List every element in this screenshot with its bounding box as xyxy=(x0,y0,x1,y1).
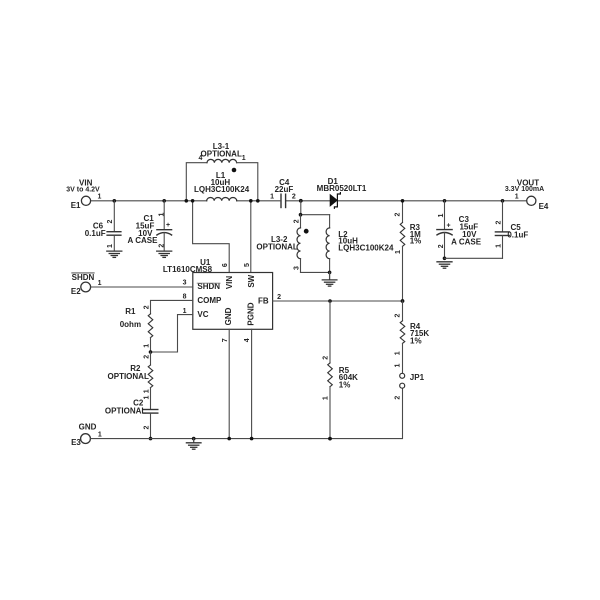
svg-text:2: 2 xyxy=(322,356,329,360)
node C4/D1/L3-2 junction xyxy=(299,199,303,215)
svg-text:1: 1 xyxy=(438,214,445,218)
svg-text:SHDN: SHDN xyxy=(72,273,95,282)
terminal E4 xyxy=(505,178,549,211)
svg-text:PGND: PGND xyxy=(247,302,256,325)
svg-text:OPTIONAL: OPTIONAL xyxy=(105,407,146,416)
svg-text:1%: 1% xyxy=(410,236,422,245)
inductor L3-1 (optional, coupled) xyxy=(185,142,260,202)
jumper JP1 xyxy=(394,363,424,399)
svg-text:2: 2 xyxy=(495,220,502,224)
op-amp U1 LT1610CMS8 box xyxy=(163,258,281,342)
svg-text:1%: 1% xyxy=(410,336,422,345)
svg-text:OPTIONAL: OPTIONAL xyxy=(256,242,297,251)
inductor L3-2 (optional, coupled) xyxy=(256,213,329,273)
svg-text:4: 4 xyxy=(244,338,251,342)
svg-text:1: 1 xyxy=(98,432,102,439)
svg-text:3V to 4.2V: 3V to 4.2V xyxy=(66,186,100,193)
wire VIN rail E1 to C4 xyxy=(91,200,207,202)
svg-text:A CASE: A CASE xyxy=(451,237,482,246)
svg-text:2: 2 xyxy=(438,244,445,248)
svg-text:OPTIONAL: OPTIONAL xyxy=(201,149,242,158)
svg-text:2: 2 xyxy=(395,212,402,216)
resistor R3 xyxy=(395,199,422,301)
svg-text:3: 3 xyxy=(183,280,187,287)
ground (L2/L3-2) xyxy=(322,272,337,286)
svg-text:2: 2 xyxy=(107,220,114,224)
resistor R2 (optional) xyxy=(108,352,153,409)
svg-text:1: 1 xyxy=(98,280,102,287)
svg-text:1: 1 xyxy=(515,194,519,201)
wire VIN pin drop xyxy=(191,199,229,273)
wire PGND pin 4 drop xyxy=(250,329,254,440)
svg-text:2: 2 xyxy=(277,294,281,301)
svg-text:MBR0520LT1: MBR0520LT1 xyxy=(317,184,367,193)
ground (C1) xyxy=(157,251,172,257)
svg-text:1: 1 xyxy=(495,244,502,248)
svg-text:1: 1 xyxy=(143,395,150,399)
terminal E1 xyxy=(66,179,101,210)
svg-text:2: 2 xyxy=(158,244,165,248)
resistor R1 xyxy=(120,305,153,352)
wire SW pin drop xyxy=(244,199,253,273)
svg-text:+: + xyxy=(447,222,451,229)
svg-text:JP1: JP1 xyxy=(410,373,425,382)
svg-text:VC: VC xyxy=(197,310,208,319)
svg-text:1: 1 xyxy=(270,194,274,201)
svg-text:COMP: COMP xyxy=(197,296,222,305)
capacitor C6 xyxy=(85,199,121,251)
wire VC pin elbow xyxy=(149,315,193,354)
svg-text:0.1uF: 0.1uF xyxy=(507,230,528,239)
svg-text:1: 1 xyxy=(158,212,165,216)
svg-text:1: 1 xyxy=(144,344,151,348)
ground (C6) xyxy=(107,251,122,257)
resistor R4 xyxy=(394,301,429,374)
wire GND pin 7 drop xyxy=(227,329,231,440)
svg-text:LT1610CMS8: LT1610CMS8 xyxy=(163,265,213,274)
svg-text:1: 1 xyxy=(394,363,401,367)
svg-text:1: 1 xyxy=(242,155,246,162)
svg-text:E1: E1 xyxy=(71,201,81,210)
svg-text:E3: E3 xyxy=(71,438,81,447)
svg-text:SW: SW xyxy=(247,274,256,287)
capacitor C5 xyxy=(445,199,529,258)
terminal E2 xyxy=(71,273,102,296)
inductor L2 xyxy=(326,215,394,275)
svg-text:2: 2 xyxy=(144,305,151,309)
wire FB net xyxy=(273,299,405,303)
capacitor C4 xyxy=(270,178,296,208)
svg-text:1: 1 xyxy=(107,244,114,248)
svg-text:1: 1 xyxy=(395,250,402,254)
svg-text:8: 8 xyxy=(183,294,187,301)
svg-text:A CASE: A CASE xyxy=(128,236,159,245)
svg-text:1: 1 xyxy=(394,351,401,355)
svg-text:1: 1 xyxy=(144,389,151,393)
diode D1 MBR0520LT1 xyxy=(317,177,367,209)
svg-text:1%: 1% xyxy=(339,381,351,390)
svg-text:E2: E2 xyxy=(71,287,81,296)
svg-text:5: 5 xyxy=(244,263,251,267)
svg-text:VIN: VIN xyxy=(225,276,234,290)
svg-text:LQH3C100K24: LQH3C100K24 xyxy=(194,185,250,194)
svg-text:4: 4 xyxy=(199,155,203,162)
svg-text:2: 2 xyxy=(143,425,150,429)
svg-text:2: 2 xyxy=(292,194,296,201)
capacitor C1 xyxy=(128,199,172,251)
svg-text:0ohm: 0ohm xyxy=(120,320,141,329)
svg-text:2: 2 xyxy=(394,313,401,317)
svg-text:2: 2 xyxy=(294,219,301,223)
ground (rail) xyxy=(186,437,201,449)
wire L1 right to C4 xyxy=(237,200,280,202)
svg-text:GND: GND xyxy=(224,307,233,325)
wire D1 cathode to E4 xyxy=(338,200,527,202)
wire E2 to SHDN pin xyxy=(91,286,193,288)
svg-text:LQH3C100K24: LQH3C100K24 xyxy=(338,243,394,252)
svg-text:2: 2 xyxy=(144,355,151,359)
wire COMP pin to R1 xyxy=(151,300,193,313)
wire C4 to D1 anode xyxy=(286,200,330,202)
svg-text:2: 2 xyxy=(394,396,401,400)
svg-text:E4: E4 xyxy=(539,202,549,211)
resistor R5 xyxy=(322,301,358,441)
svg-text:3: 3 xyxy=(294,266,301,270)
capacitor C2 (optional) xyxy=(105,395,158,440)
svg-text:FB: FB xyxy=(258,297,269,306)
svg-text:1: 1 xyxy=(97,194,101,201)
ground (C3/C5) xyxy=(437,262,452,268)
terminal E3 xyxy=(71,423,102,447)
svg-text:GND: GND xyxy=(79,423,97,432)
svg-text:+: + xyxy=(166,222,170,229)
svg-text:OPTIONAL: OPTIONAL xyxy=(108,372,149,381)
svg-text:7: 7 xyxy=(222,338,229,342)
capacitor C3 xyxy=(437,199,482,260)
svg-text:1: 1 xyxy=(183,308,187,315)
svg-text:1: 1 xyxy=(322,396,329,400)
svg-text:0.1uF: 0.1uF xyxy=(85,229,106,238)
svg-text:6: 6 xyxy=(222,263,229,267)
svg-text:22uF: 22uF xyxy=(275,185,294,194)
svg-text:R1: R1 xyxy=(125,307,136,316)
inductor L1 xyxy=(194,171,250,201)
wire GND rail xyxy=(91,388,403,439)
svg-text:3.3V 100mA: 3.3V 100mA xyxy=(505,186,544,193)
